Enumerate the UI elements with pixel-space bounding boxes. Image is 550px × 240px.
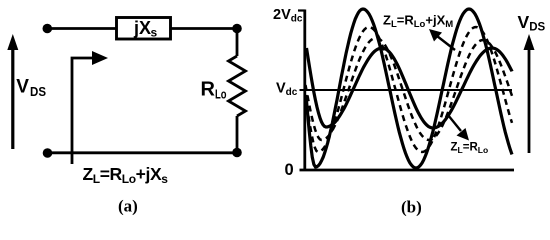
wire top-left to jXs box bbox=[48, 27, 117, 30]
waveform dashed outer bbox=[306, 27, 513, 152]
wire resistor to bottom-right node bbox=[236, 116, 239, 152]
bottom wire bbox=[48, 151, 238, 154]
arrow to large waveform bbox=[429, 29, 455, 50]
node bottom-right bbox=[232, 148, 242, 158]
svg-text:DS: DS bbox=[30, 85, 46, 99]
waveform dashed inner bbox=[306, 38, 513, 140]
svg-text:Lo: Lo bbox=[215, 88, 227, 102]
arrow to small waveform bbox=[448, 115, 469, 141]
wire jXs box to top-right node bbox=[171, 27, 237, 30]
node top-right bbox=[232, 24, 242, 34]
impedance look-in arrow bbox=[72, 51, 108, 164]
voltage arrow V_DS (left) bbox=[7, 34, 18, 149]
voltage arrow V_DS (right) bbox=[524, 34, 535, 153]
svg-text:R: R bbox=[201, 79, 216, 101]
svg-text:V: V bbox=[16, 77, 29, 98]
waveform ZL=RLo+jXM (large solid) bbox=[306, 9, 512, 168]
tick 2Vdc bbox=[298, 9, 305, 11]
reactance jXs bbox=[117, 18, 171, 40]
svg-text:0: 0 bbox=[285, 161, 294, 179]
node bottom-left bbox=[43, 148, 53, 158]
node top-left bbox=[43, 24, 53, 34]
svg-text:(b): (b) bbox=[401, 198, 422, 217]
wire node to resistor bbox=[236, 29, 239, 56]
waveform ZL=RLo (small solid) bbox=[307, 48, 513, 128]
resistor RLo zigzag bbox=[229, 56, 246, 116]
y-axis bbox=[303, 10, 306, 172]
x-axis bbox=[300, 169, 515, 172]
svg-text:s: s bbox=[151, 25, 158, 39]
svg-text:(a): (a) bbox=[118, 197, 138, 216]
svg-text:jX: jX bbox=[133, 18, 151, 38]
Vdc level line bbox=[300, 89, 513, 91]
